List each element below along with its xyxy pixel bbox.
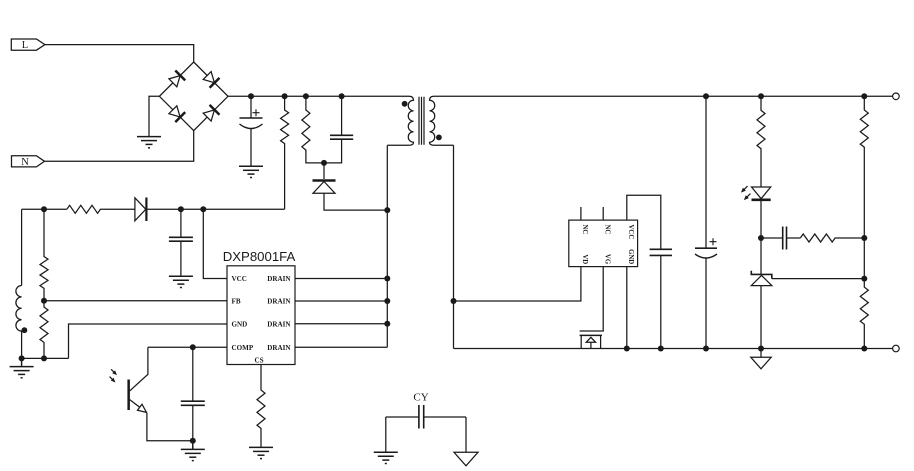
bridge diode D2 (top to right) — [202, 71, 219, 88]
IC U1 DXP8001FA — [223, 249, 296, 365]
transistor Q2 sync MOSFET gate wire — [580, 267, 604, 331]
wire N to bridge bottom — [45, 131, 194, 162]
wire aux bottom — [22, 357, 69, 359]
wire TL431 ref — [772, 278, 865, 280]
node snubber junction — [321, 160, 327, 166]
node bus-drain3 — [384, 321, 390, 327]
svg-text:CY: CY — [413, 392, 428, 404]
chassis ground CY — [454, 452, 478, 466]
ground at R6 — [249, 447, 273, 458]
transistor Q1 optocoupler — [108, 347, 193, 440]
node COMP-C4 — [190, 344, 196, 350]
transistor Q2 body arrow — [586, 337, 595, 348]
pin NC stub1 — [580, 207, 582, 220]
resistor R3 startup series — [67, 205, 135, 213]
svg-text:DRAIN: DRAIN — [267, 344, 291, 352]
wire GND to IC — [69, 324, 228, 358]
node LED-TL431 — [758, 235, 764, 241]
svg-text:DRAIN: DRAIN — [267, 321, 291, 329]
svg-text:VG: VG — [604, 254, 611, 265]
ground aux — [10, 358, 34, 377]
node rail-C1 — [248, 93, 254, 99]
terminal output minus — [893, 345, 900, 352]
transformer T1 secondary winding — [430, 96, 454, 145]
wire COMP — [148, 346, 227, 348]
wire bottom rail — [454, 348, 893, 350]
node C6 bottom — [703, 346, 709, 352]
wire DRAIN2 — [295, 300, 387, 302]
transistor Q2 channel — [580, 334, 602, 336]
resistor R1 startup (from rail) — [281, 96, 289, 209]
ground at C4 — [181, 441, 205, 461]
phase dot secondary — [436, 135, 442, 141]
svg-text:GND: GND — [627, 249, 634, 264]
transformer T1 core — [419, 97, 424, 145]
wire bridge left to ground — [149, 96, 159, 136]
node bus-clamp — [384, 207, 390, 213]
resistor R5 lower FB divider — [40, 301, 48, 359]
inductor L1 aux winding — [16, 286, 22, 359]
wire drain bus — [386, 145, 388, 347]
node startup-VCC — [200, 206, 206, 212]
wire L to bridge top — [45, 45, 194, 62]
wire CY right — [465, 417, 467, 452]
node C6 top — [703, 93, 709, 99]
capacitor C1 bulk electrolytic — [240, 96, 263, 166]
node C4 bottom — [190, 438, 196, 444]
chassis ground TL431 — [751, 349, 771, 369]
phase dot aux — [22, 327, 28, 333]
node rail-R1 — [282, 93, 288, 99]
transformer T1 primary winding — [387, 96, 413, 145]
pin NC stub2 — [602, 207, 604, 220]
wire FB to IC — [44, 300, 227, 302]
node divider-ref — [861, 276, 867, 282]
diode D5 clamp — [313, 163, 388, 210]
resistor R10 divider lower — [860, 279, 868, 349]
wire C7 to R8 — [787, 237, 801, 239]
capacitor C3 vcc filter — [169, 209, 193, 276]
svg-text:N: N — [21, 157, 29, 168]
wire aux column — [21, 209, 23, 285]
resistor R7 LED series — [757, 96, 765, 187]
wire secondary return — [453, 145, 455, 348]
ground at C1 — [239, 166, 263, 177]
node divider bottom — [861, 346, 867, 352]
node startup-R4 — [41, 206, 47, 212]
svg-text:NC: NC — [604, 225, 611, 235]
ground at bridge — [137, 137, 161, 148]
IC U2 sync rectifier — [569, 220, 638, 267]
node aux bottom left — [19, 355, 25, 361]
capacitor C7 feedback — [783, 227, 787, 250]
wire secondary top rail — [434, 95, 893, 97]
node TL431 anode rail — [758, 346, 764, 352]
capacitor CY — [386, 405, 466, 429]
resistor R4 upper FB divider — [40, 209, 48, 300]
wire DRAIN1 — [295, 278, 387, 280]
wire DRAIN4 — [295, 346, 387, 348]
svg-text:VCC: VCC — [232, 275, 247, 283]
svg-text:CS: CS — [254, 357, 263, 365]
connector N — [12, 156, 45, 168]
bridge diode D4 (bottom to right) — [202, 105, 219, 122]
node U2 gnd — [624, 346, 630, 352]
resistor R8 feedback — [800, 234, 864, 242]
node rail-C2 — [339, 93, 345, 99]
node LED branch top — [758, 93, 764, 99]
bridge diode D3 (left to bottom) — [168, 105, 185, 122]
node FB — [41, 298, 47, 304]
resistor R6 CS — [257, 365, 265, 448]
svg-text:GND: GND — [232, 321, 248, 329]
wire DRAIN3 — [295, 323, 387, 325]
wire VCC to IC — [203, 209, 227, 278]
node bus-drain1 — [384, 276, 390, 282]
svg-text:VCC: VCC — [627, 225, 634, 240]
wire startup line left — [22, 208, 67, 210]
terminal output plus — [893, 93, 900, 100]
svg-text:DRAIN: DRAIN — [267, 275, 291, 283]
transistor Q2 posts — [581, 335, 600, 348]
svg-text:COMP: COMP — [232, 344, 254, 352]
node aux bottom right — [41, 355, 47, 361]
capacitor C6 output electrolytic — [695, 96, 717, 348]
svg-text:FB: FB — [232, 298, 241, 306]
capacitor C5 vcc bypass — [650, 249, 672, 348]
svg-text:DRAIN: DRAIN — [267, 298, 291, 306]
capacitor C4 comp — [181, 347, 205, 440]
svg-text:VD: VD — [581, 254, 588, 264]
ground at C3 — [169, 276, 193, 287]
wire U2 GND — [626, 267, 628, 349]
bridge diode D1 (left to top) — [168, 71, 185, 88]
LED D7 optocoupler — [739, 185, 770, 238]
node rail-R2 — [303, 93, 309, 99]
svg-text:L: L — [22, 40, 28, 51]
node C5 gnd — [658, 346, 664, 352]
wire CY left — [385, 417, 387, 452]
shunt regulator U3 TL431 — [751, 238, 772, 349]
phase dot primary — [402, 101, 408, 107]
wire divider mid — [863, 238, 865, 279]
connector L — [11, 39, 45, 51]
wire primary top rail — [228, 95, 409, 97]
node divider top — [861, 93, 867, 99]
svg-text:NC: NC — [581, 225, 588, 235]
ground CY earth — [374, 452, 398, 463]
wire to C7 — [761, 237, 783, 239]
node bus-drain2 — [384, 298, 390, 304]
node VD tap — [451, 298, 457, 304]
resistor R9 divider upper — [860, 96, 868, 238]
diode D6 startup — [135, 198, 285, 222]
svg-text:DXP8001FA: DXP8001FA — [223, 249, 296, 264]
resistor R2 snubber — [302, 96, 324, 163]
bridge rectifier diamond — [159, 62, 228, 131]
capacitor C2 snubber — [324, 96, 353, 163]
wire VD — [454, 267, 581, 301]
wire U2 VCC — [627, 195, 661, 249]
node startup-C3 — [178, 206, 184, 212]
node divider-R8 — [861, 235, 867, 241]
